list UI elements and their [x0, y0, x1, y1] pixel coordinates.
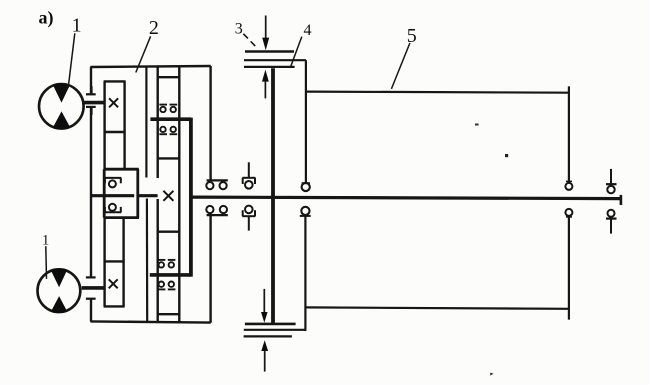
- carrier drum vertical (thick): [189, 118, 193, 277]
- leader line 5: [391, 43, 410, 89]
- svg-text:2: 2: [149, 17, 159, 39]
- clutch box B2 (bottom left, X): [104, 218, 125, 307]
- friction disc assembly top: [244, 52, 306, 67]
- coupling of motor 1 (bottom): [82, 277, 105, 298]
- X mark clutch B1: [109, 98, 118, 107]
- shaft end bar: [620, 195, 623, 205]
- upper pin shaft (thick): [150, 117, 191, 121]
- coupling of motor 1 (top): [84, 86, 105, 115]
- frame support right (x=569) bottom: [565, 209, 572, 320]
- ground bearing right (x=611) bottom: [606, 210, 617, 234]
- svg-text:1: 1: [72, 15, 82, 37]
- svg-text:1: 1: [42, 233, 49, 249]
- bearing above shaft (x=306): [302, 183, 310, 191]
- scan speck 1: [475, 124, 479, 126]
- wall bearings (x=210) upper pair: [206, 180, 228, 189]
- svg-text:5: 5: [407, 25, 417, 47]
- bearing (lower) in housing: [104, 204, 121, 213]
- friction disc assembly bottom: [244, 324, 306, 337]
- pedestal bearing upper (x=249): [242, 162, 255, 188]
- leader line 1 bottom: [45, 246, 48, 279]
- press arrow top (up): [262, 70, 269, 99]
- clutch box B1 (top left, X): [104, 81, 126, 169]
- leader line 4: [291, 37, 302, 67]
- X mark gear block: [163, 191, 173, 201]
- gear block bottom bearings: [158, 260, 176, 290]
- svg-text:a): a): [39, 8, 54, 29]
- lower pin shaft (thick): [150, 273, 191, 277]
- leader line 2: [136, 36, 151, 72]
- leader line 3 (dashed): [243, 34, 257, 49]
- bearing housing (left, mid): [104, 169, 139, 217]
- ground bearing right (x=611) top: [606, 169, 617, 193]
- gear block top bearings: [159, 105, 177, 135]
- press arrow bottom (up): [261, 340, 268, 371]
- pedestal bearing lower (x=249): [242, 206, 255, 231]
- disc housing vertical (top): [305, 60, 307, 182]
- disc housing vertical (bottom): [304, 216, 306, 331]
- press arrow bottom (down): [261, 289, 268, 323]
- bearing below shaft (x=306): [301, 207, 309, 215]
- gearbox housing 2: [90, 66, 210, 323]
- leader line 1 top: [68, 33, 75, 87]
- frame 5 top line: [306, 92, 569, 93]
- hydraulic motor 1 (top): [39, 83, 84, 129]
- frame 5 bottom line: [306, 307, 569, 308]
- frame support right (x=569) top: [565, 86, 572, 189]
- wall bearings (x=210) lower pair: [206, 206, 228, 215]
- press arrow top (down): [262, 16, 269, 51]
- input shaft (top motor): [91, 194, 134, 197]
- bearing (upper) in housing: [104, 178, 121, 188]
- hydraulic motor 1 (bottom): [38, 269, 81, 313]
- inner wall of gearbox: [145, 67, 147, 178]
- svg-text:3: 3: [235, 21, 243, 38]
- vertical shaft 4: [271, 68, 275, 324]
- gear block column: [158, 66, 180, 322]
- svg-text:4: 4: [304, 22, 312, 39]
- output shaft (main horizontal): [191, 197, 620, 199]
- scan speck 3: [490, 373, 493, 376]
- X mark clutch B2: [109, 279, 118, 288]
- scan speck 2: [505, 154, 508, 157]
